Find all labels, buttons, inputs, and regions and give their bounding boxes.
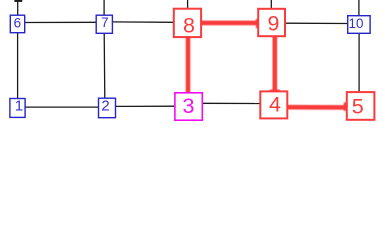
red wire 9-4 bbox=[272, 36, 277, 91]
tee arrowhead at node 4 bbox=[270, 90, 281, 93]
red wire 8-3 bbox=[186, 37, 191, 93]
wire stub above node 9 bbox=[270, 0, 272, 9]
svg-text:4: 4 bbox=[269, 92, 281, 116]
red wire 8-9 bbox=[201, 21, 257, 26]
wire 9-10 bbox=[285, 22, 348, 24]
svg-text:1: 1 bbox=[15, 98, 23, 115]
wire 7-8 bbox=[112, 21, 174, 23]
wire 6-7 bbox=[25, 21, 96, 23]
node 9 bbox=[258, 9, 285, 36]
wire 3-4 bbox=[202, 102, 260, 104]
red wire 4-5 bbox=[287, 105, 345, 110]
svg-text:5: 5 bbox=[352, 95, 364, 119]
wire 1-2 bbox=[25, 106, 99, 108]
svg-text:2: 2 bbox=[101, 98, 109, 115]
wire 7-2 bbox=[103, 33, 106, 98]
node 4 bbox=[260, 91, 287, 118]
wire 10-5 bbox=[358, 33, 360, 92]
svg-text:10: 10 bbox=[349, 16, 364, 31]
node 3 bbox=[175, 93, 202, 120]
wire stub above node 6 bbox=[17, 0, 19, 16]
tee arrowhead at node 9 bbox=[256, 19, 259, 28]
svg-text:6: 6 bbox=[14, 15, 21, 30]
svg-text:3: 3 bbox=[183, 94, 195, 118]
wire stub above node 7 bbox=[103, 0, 105, 15]
wire 2-3 bbox=[115, 105, 175, 107]
wire 6-1 bbox=[17, 33, 19, 99]
clipped tee mark top-left bbox=[14, 0, 22, 2]
tee arrowhead at node 5 bbox=[344, 102, 347, 110]
node 8 bbox=[174, 9, 201, 38]
node 7 bbox=[96, 15, 112, 33]
wire stub above node 10 bbox=[358, 0, 360, 16]
svg-text:9: 9 bbox=[268, 12, 280, 36]
wire stub above node 8 bbox=[187, 0, 189, 9]
node 10 bbox=[348, 16, 370, 34]
node 5 bbox=[347, 92, 375, 120]
node 6 bbox=[10, 15, 24, 33]
node 1 bbox=[10, 98, 25, 118]
svg-text:8: 8 bbox=[183, 14, 195, 38]
svg-text:7: 7 bbox=[101, 15, 108, 30]
node 2 bbox=[99, 98, 116, 118]
